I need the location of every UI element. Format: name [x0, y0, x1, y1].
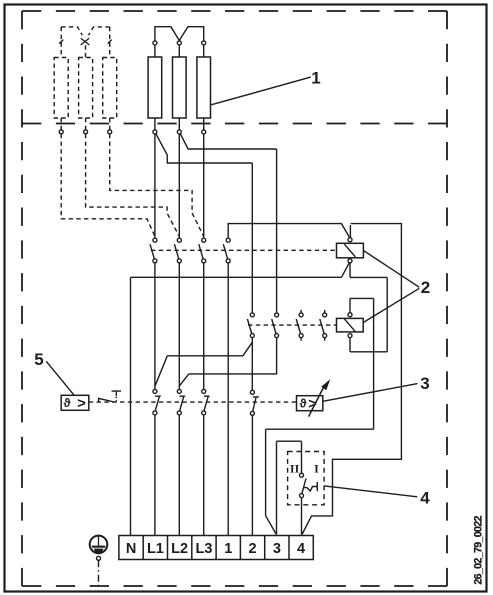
svg-text:>: >: [308, 395, 317, 412]
svg-text:4: 4: [420, 489, 430, 508]
svg-text:L3: L3: [196, 541, 213, 557]
svg-text:II: II: [290, 462, 300, 476]
svg-text:ϑ: ϑ: [300, 396, 307, 410]
svg-text:26_02_79_0022: 26_02_79_0022: [473, 515, 485, 584]
svg-text:4: 4: [297, 541, 305, 557]
svg-text:1: 1: [311, 69, 320, 88]
svg-text:L1: L1: [147, 541, 164, 557]
svg-text:N: N: [126, 541, 136, 557]
svg-text:L2: L2: [171, 541, 188, 557]
svg-text:2: 2: [249, 541, 257, 557]
svg-text:3: 3: [420, 374, 429, 393]
svg-text:>: >: [77, 395, 86, 412]
svg-text:I: I: [314, 462, 319, 476]
svg-text:3: 3: [273, 541, 281, 557]
svg-text:5: 5: [34, 350, 43, 369]
svg-text:2: 2: [421, 278, 430, 297]
svg-text:1: 1: [224, 541, 232, 557]
svg-text:ϑ: ϑ: [64, 396, 71, 410]
